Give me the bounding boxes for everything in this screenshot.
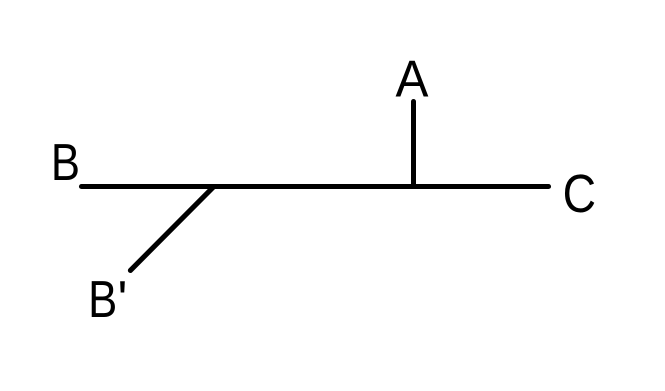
svg-text:B: B [51,134,80,191]
svg-text:C: C [563,164,596,224]
wire: diagonal line down to B' [130,187,213,271]
svg-text:A: A [396,49,429,107]
svg-text:B: B [88,272,117,329]
svg-text:': ' [118,271,128,329]
wire: horizontal line B to C [82,184,549,189]
wire: vertical line up to A [411,102,416,187]
